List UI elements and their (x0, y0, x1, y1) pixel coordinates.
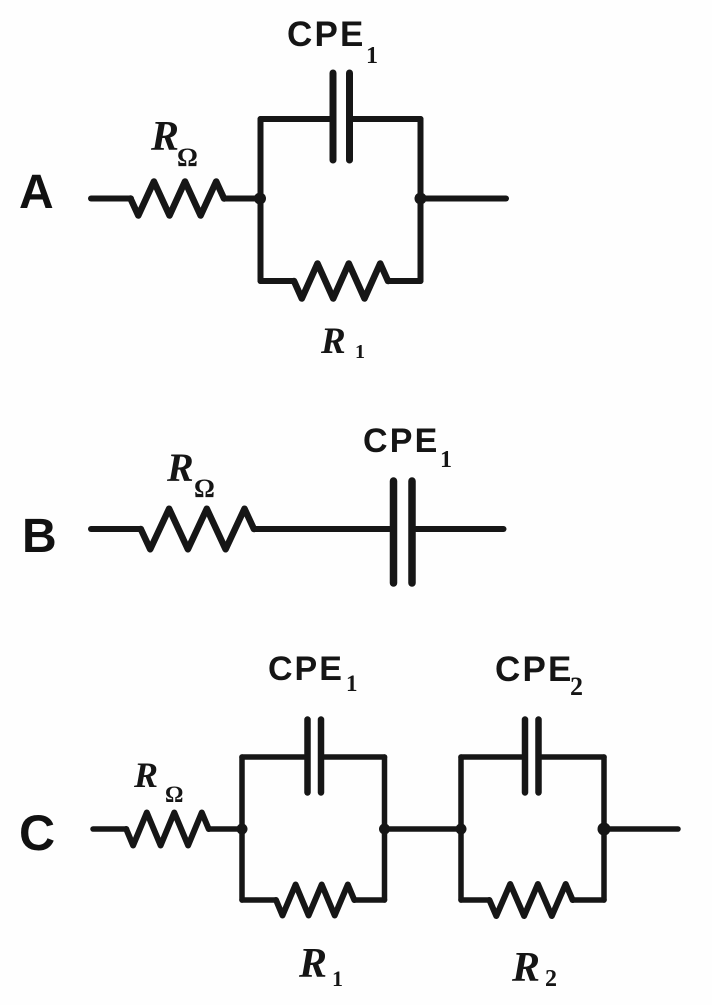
svg-text:1: 1 (346, 671, 358, 696)
svg-text:CPE: CPE (268, 650, 344, 688)
value label CPE2 (C) (495, 650, 583, 701)
wire (C box 2 top, left of CPE2) (461, 754, 522, 760)
capacitor CPE1 (A) (333, 73, 350, 160)
svg-text:B: B (22, 510, 57, 563)
node (C box 2 left junction) (456, 824, 467, 835)
svg-text:1: 1 (366, 43, 378, 69)
wire (C box 2 left vertical) (458, 757, 464, 900)
svg-text:CPE: CPE (287, 15, 366, 54)
svg-text:2: 2 (545, 966, 557, 992)
value label RΩ (A) (150, 114, 198, 172)
resistor R1 (C) (276, 885, 354, 916)
svg-text:1: 1 (332, 966, 343, 991)
capacitor CPE2 (C) (525, 720, 539, 793)
svg-text:Ω: Ω (177, 143, 198, 172)
wire (C box 1 left vertical) (239, 757, 245, 900)
resistor RΩ (A) (131, 182, 225, 216)
resistor R1 (A) (294, 264, 388, 299)
wire (C box 2 bottom, left of R2) (461, 897, 489, 903)
svg-text:R: R (166, 445, 194, 490)
wire (A input) (91, 196, 131, 202)
wire (C box 1 bottom, right of R1) (354, 897, 384, 903)
resistor RΩ (C) (126, 813, 209, 846)
wire (C box 2 right vertical) (601, 757, 607, 900)
wire (C box 1 top, left of CPE1) (242, 754, 304, 760)
svg-text:Ω: Ω (165, 782, 183, 807)
node (A right junction) (415, 193, 427, 205)
wire (A output) (421, 196, 507, 202)
svg-text:Ω: Ω (194, 474, 215, 503)
wire (B resistor to capacitor) (254, 526, 390, 532)
wire (A box top, left of CPE1) (261, 116, 331, 122)
wire (B input) (91, 526, 141, 532)
value label RΩ (B) (166, 445, 215, 503)
value label R2 (C) (511, 945, 557, 992)
value label CPE1 (B) (363, 422, 452, 473)
svg-text:CPE: CPE (363, 422, 440, 460)
wire (A box bottom, right of R1) (388, 278, 421, 284)
wire (A box left vertical) (258, 119, 264, 281)
resistor R2 (C) (489, 884, 572, 916)
wire (C box 2 bottom, right of R2) (573, 897, 604, 903)
wire (C box 2 top, right of CPE2) (542, 754, 604, 760)
value label RΩ (C) (133, 755, 183, 807)
value label R1 (A) (320, 321, 365, 363)
capacitor CPE1 (C) (308, 720, 322, 793)
wire (C box 1 right vertical) (382, 757, 388, 900)
wire (C output) (604, 826, 678, 832)
svg-text:2: 2 (570, 672, 583, 701)
value label R1 (C) (298, 941, 343, 991)
wire (C resistor to box 1) (209, 826, 242, 832)
svg-text:R: R (511, 945, 540, 991)
svg-text:A: A (19, 166, 54, 219)
wire (C input) (93, 826, 127, 832)
svg-text:R: R (150, 114, 179, 160)
wire (A resistor to box) (224, 196, 261, 202)
node (C box 1 right junction) (379, 824, 390, 835)
wire (A box top, right of CPE1) (353, 116, 421, 122)
capacitor CPE1 (B) (394, 481, 413, 583)
svg-text:R: R (133, 755, 158, 795)
wire (A box bottom, left of R1) (261, 278, 295, 284)
svg-text:R: R (298, 941, 327, 987)
svg-text:1: 1 (355, 341, 365, 363)
wire (C box 1 top, right of CPE1) (325, 754, 385, 760)
wire (C box 1 bottom, left of R1) (242, 897, 276, 903)
node (A left junction) (254, 193, 266, 205)
node (C box 2 right junction) (598, 823, 611, 836)
value label CPE1 (C) (268, 650, 358, 696)
svg-text:1: 1 (440, 447, 452, 473)
value label CPE1 (A) (287, 15, 378, 69)
resistor RΩ (B) (141, 509, 254, 550)
wire (A box right vertical) (418, 119, 424, 281)
wire (C middle, box 1 to box 2) (385, 826, 462, 832)
node (C box 1 left junction) (237, 824, 248, 835)
svg-text:C: C (19, 805, 55, 861)
wire (B output) (416, 526, 504, 532)
svg-text:CPE: CPE (495, 650, 574, 689)
svg-text:R: R (320, 321, 346, 362)
